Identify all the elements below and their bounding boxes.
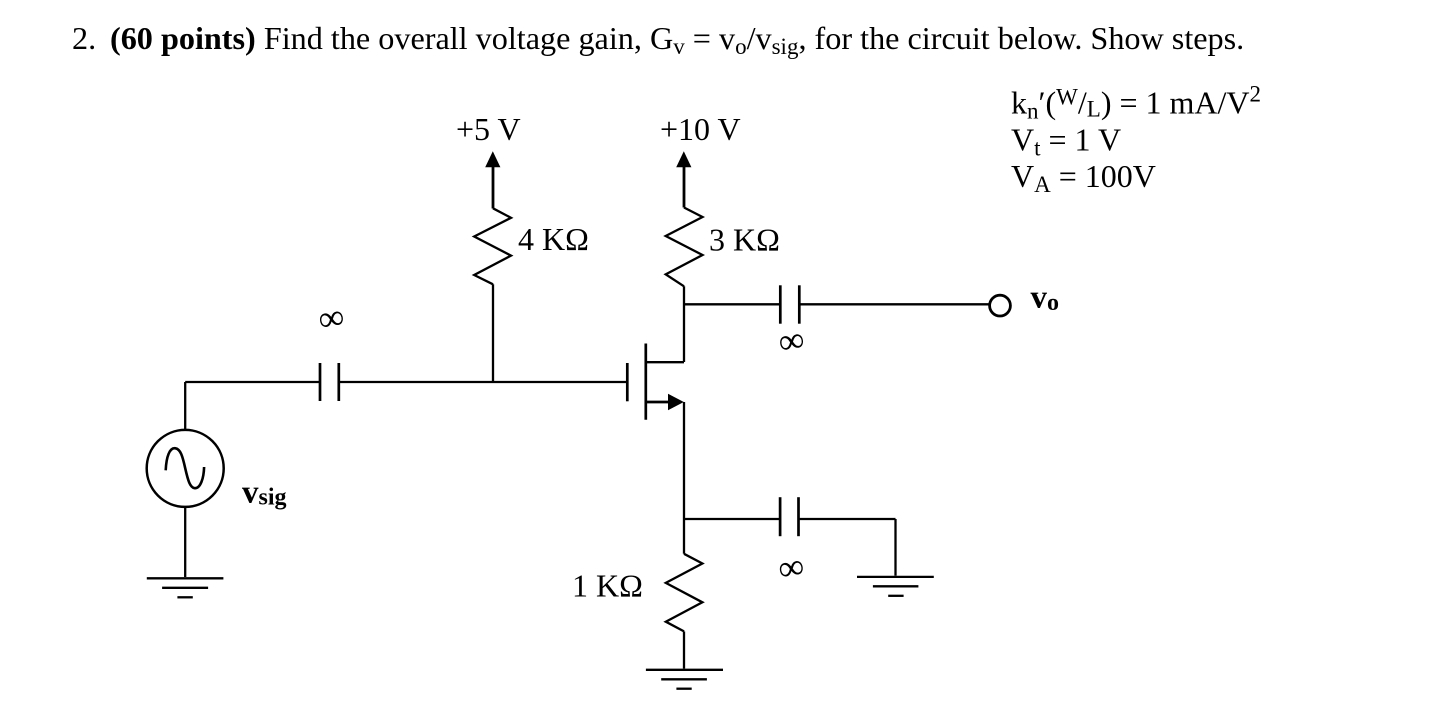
svg-text:vsig: vsig (242, 474, 287, 510)
svg-text:(60 points) Find the overall v: (60 points) Find the overall voltage gai… (110, 20, 1244, 59)
svg-text:1 KΩ: 1 KΩ (572, 568, 643, 604)
svg-text:∞: ∞ (775, 545, 807, 589)
svg-text:kn′(W/L) = 1 mA/V2: kn′(W/L) = 1 mA/V2 (1011, 82, 1261, 124)
svg-text:Vt = 1 V: Vt = 1 V (1011, 122, 1121, 161)
svg-text:VA = 100V: VA = 100V (1011, 158, 1156, 197)
svg-text:∞: ∞ (775, 319, 807, 363)
svg-text:4 KΩ: 4 KΩ (518, 221, 589, 257)
svg-text:+5 V: +5 V (456, 111, 521, 147)
svg-text:3 KΩ: 3 KΩ (709, 222, 780, 258)
svg-text:vo: vo (1031, 280, 1060, 317)
svg-text:2.: 2. (72, 20, 96, 56)
svg-text:∞: ∞ (315, 296, 347, 340)
svg-text:+10 V: +10 V (660, 111, 741, 147)
